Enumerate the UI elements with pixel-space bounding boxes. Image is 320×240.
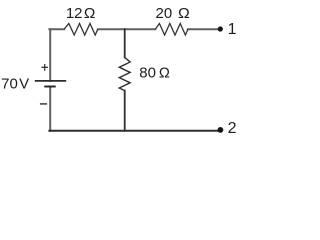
svg-text:V: V	[19, 76, 29, 93]
svg-text:12: 12	[66, 5, 83, 22]
svg-text:2: 2	[228, 120, 237, 137]
svg-text:70: 70	[1, 76, 18, 93]
svg-text:1: 1	[228, 21, 237, 38]
svg-text:20: 20	[156, 5, 173, 22]
svg-text:Ω: Ω	[159, 64, 170, 81]
svg-text:80: 80	[139, 64, 156, 81]
svg-text:Ω: Ω	[178, 5, 190, 22]
svg-text:Ω: Ω	[84, 5, 96, 22]
